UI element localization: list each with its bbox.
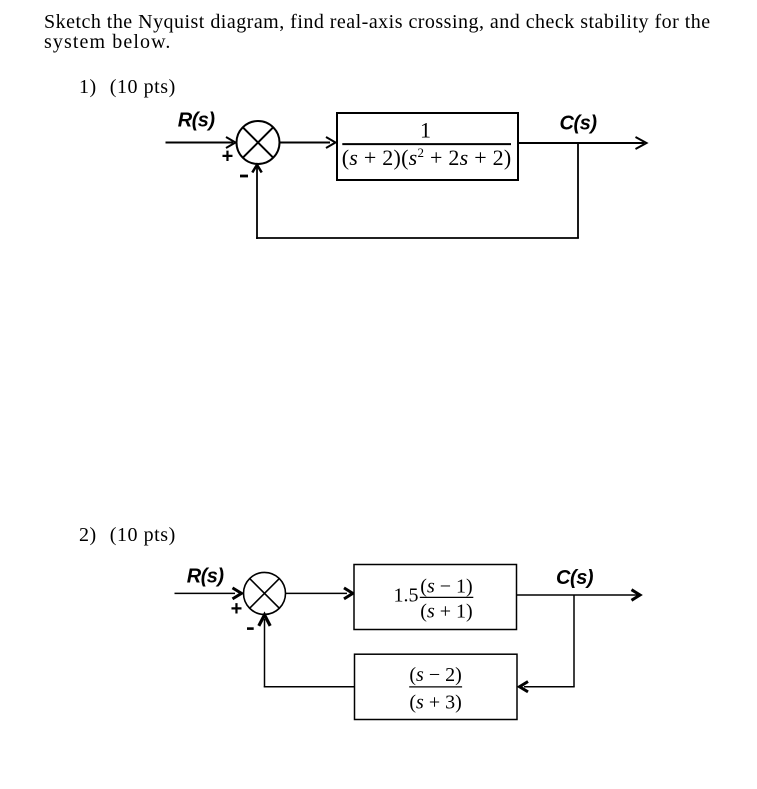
svg-text:(s + 3): (s + 3) — [409, 691, 461, 713]
svg-text:(s + 2)(s2 + 2s + 2): (s + 2)(s2 + 2s + 2) — [342, 145, 512, 170]
arrowhead into summing junction (diagram 1) — [226, 137, 236, 148]
arrowhead into block G2 — [344, 588, 353, 599]
svg-text:(s + 1): (s + 1) — [420, 601, 472, 623]
block H1 fraction bar — [409, 686, 462, 688]
wire: feedback tap vertical (diagram 1) — [577, 143, 579, 238]
svg-text:1.5: 1.5 — [394, 585, 419, 607]
svg-text:+: + — [231, 598, 243, 620]
item 1 label — [79, 77, 176, 97]
arrowhead up into S2 — [259, 615, 270, 626]
arrowhead into summing junction S2 — [233, 588, 242, 599]
wire: block G1 output line (diagram 1) — [518, 142, 644, 144]
svg-text:1: 1 — [420, 118, 431, 143]
block H1 rectangle — [355, 654, 518, 719]
block G2 fraction bar — [420, 596, 474, 598]
wire: block G2 output line (diagram 2) — [517, 594, 638, 596]
wire: summing junction to block G1 — [280, 142, 331, 144]
svg-text:C(s): C(s) — [556, 567, 594, 589]
block G2 rectangle — [354, 565, 517, 630]
arrowhead output (diagram 1) — [636, 137, 647, 149]
wire: input to summing junction (diagram 1) — [166, 142, 234, 144]
arrowhead up into S1 — [252, 165, 261, 173]
arrowhead into block G1 — [326, 137, 336, 148]
wire: feedback bottom horizontal (diagram 1) — [256, 237, 579, 239]
svg-text:+: + — [222, 145, 234, 167]
svg-text:C(s): C(s) — [560, 113, 598, 135]
wire: feedback rise to summing junction (diagram 1) — [256, 167, 258, 239]
block G1 rectangle — [337, 113, 518, 180]
summing junction S1 circle — [237, 121, 280, 164]
minus sign at S2 feedback input — [247, 627, 254, 630]
svg-text:R(s): R(s) — [178, 110, 216, 132]
item 2 label — [79, 525, 176, 545]
svg-text:(s − 2): (s − 2) — [409, 664, 461, 686]
wire: feedback rise to summing junction S2 — [264, 619, 266, 687]
wire: feedback tap vertical (diagram 2) — [573, 595, 575, 687]
wire: summing junction S2 to block G2 — [286, 592, 348, 594]
problem statement text — [44, 13, 711, 53]
arrowhead into block H1 (pointing left) — [520, 682, 529, 692]
summing junction S2 X cross — [250, 579, 280, 609]
summing junction S2 circle — [244, 572, 286, 614]
summing junction S1 X cross — [243, 127, 273, 157]
wire: input to summing junction (diagram 2) — [175, 592, 236, 594]
svg-text:(s − 1): (s − 1) — [420, 576, 472, 598]
wire: tap to block H1 input — [524, 686, 575, 688]
minus sign at S1 feedback input — [240, 175, 248, 178]
block G1 fraction bar — [342, 143, 511, 145]
svg-text:R(s): R(s) — [187, 566, 225, 588]
wire: block H1 output to feedback rise — [264, 686, 355, 688]
arrowhead output (diagram 2) — [632, 590, 641, 601]
